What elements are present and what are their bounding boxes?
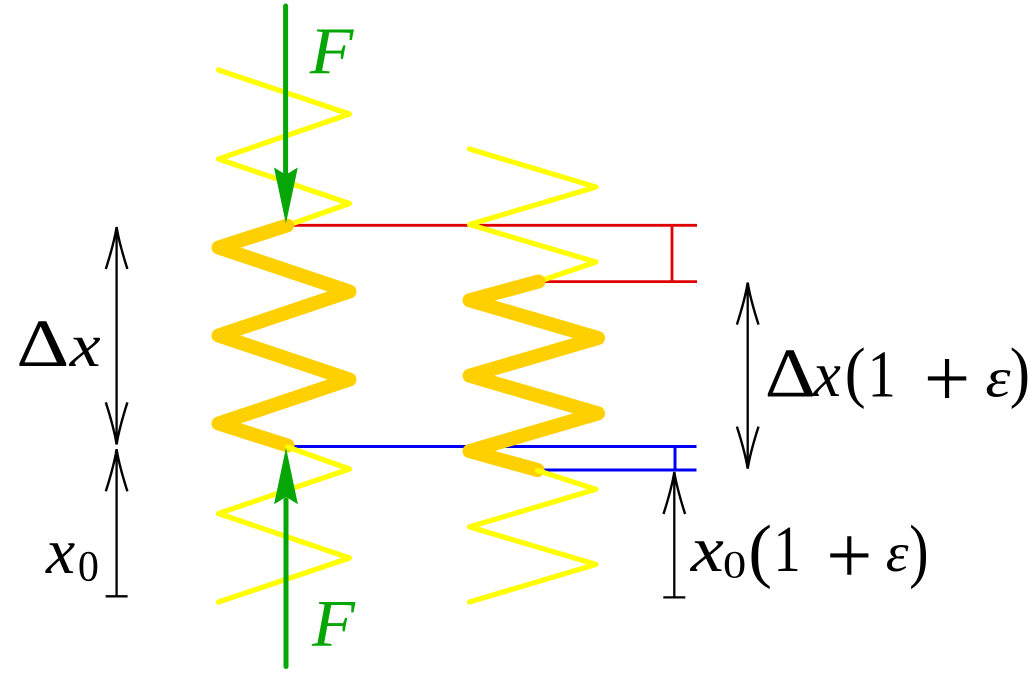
svg-text:F: F xyxy=(309,14,355,87)
svg-text:x: x xyxy=(812,339,840,410)
svg-text:0: 0 xyxy=(78,543,99,590)
svg-text:F: F xyxy=(311,586,356,660)
svg-text:1: 1 xyxy=(868,338,896,412)
svg-text:(: ( xyxy=(845,335,866,410)
svg-text:(: ( xyxy=(748,512,772,590)
svg-text:ε: ε xyxy=(985,347,1011,409)
svg-text:): ) xyxy=(1010,335,1030,410)
svg-text:Δ: Δ xyxy=(16,307,69,382)
svg-text:x: x xyxy=(690,515,724,586)
svg-text:+: + xyxy=(826,509,872,602)
svg-text:x: x xyxy=(45,516,75,588)
svg-text:0: 0 xyxy=(723,544,746,587)
svg-text:ε: ε xyxy=(886,523,910,584)
svg-text:x: x xyxy=(69,311,101,380)
svg-text:): ) xyxy=(909,512,928,591)
svg-text:Δ: Δ xyxy=(765,336,816,412)
svg-text:1: 1 xyxy=(774,513,801,586)
svg-text:+: + xyxy=(924,332,971,424)
